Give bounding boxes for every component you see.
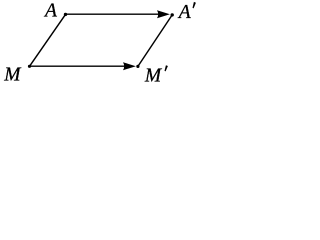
wire side A' to M' xyxy=(138,15,172,67)
node A' (dot) xyxy=(171,13,174,16)
arrowhead of vector M M' xyxy=(123,62,136,70)
svg-text:M: M xyxy=(3,65,22,84)
wire arrow shaft M to M' xyxy=(30,65,133,67)
node M' (dot) xyxy=(136,65,139,68)
node M (dot) xyxy=(28,65,31,68)
svg-text:A: A xyxy=(43,1,57,22)
label M' prime mark xyxy=(165,65,168,71)
wire side A to M xyxy=(30,14,66,66)
node A (dot) xyxy=(64,13,67,16)
label A' prime mark xyxy=(193,2,196,8)
svg-text:M: M xyxy=(144,65,163,83)
wire arrow shaft A to A' xyxy=(66,13,167,15)
arrowhead of vector A A' xyxy=(157,10,170,18)
svg-text:A: A xyxy=(177,2,191,23)
